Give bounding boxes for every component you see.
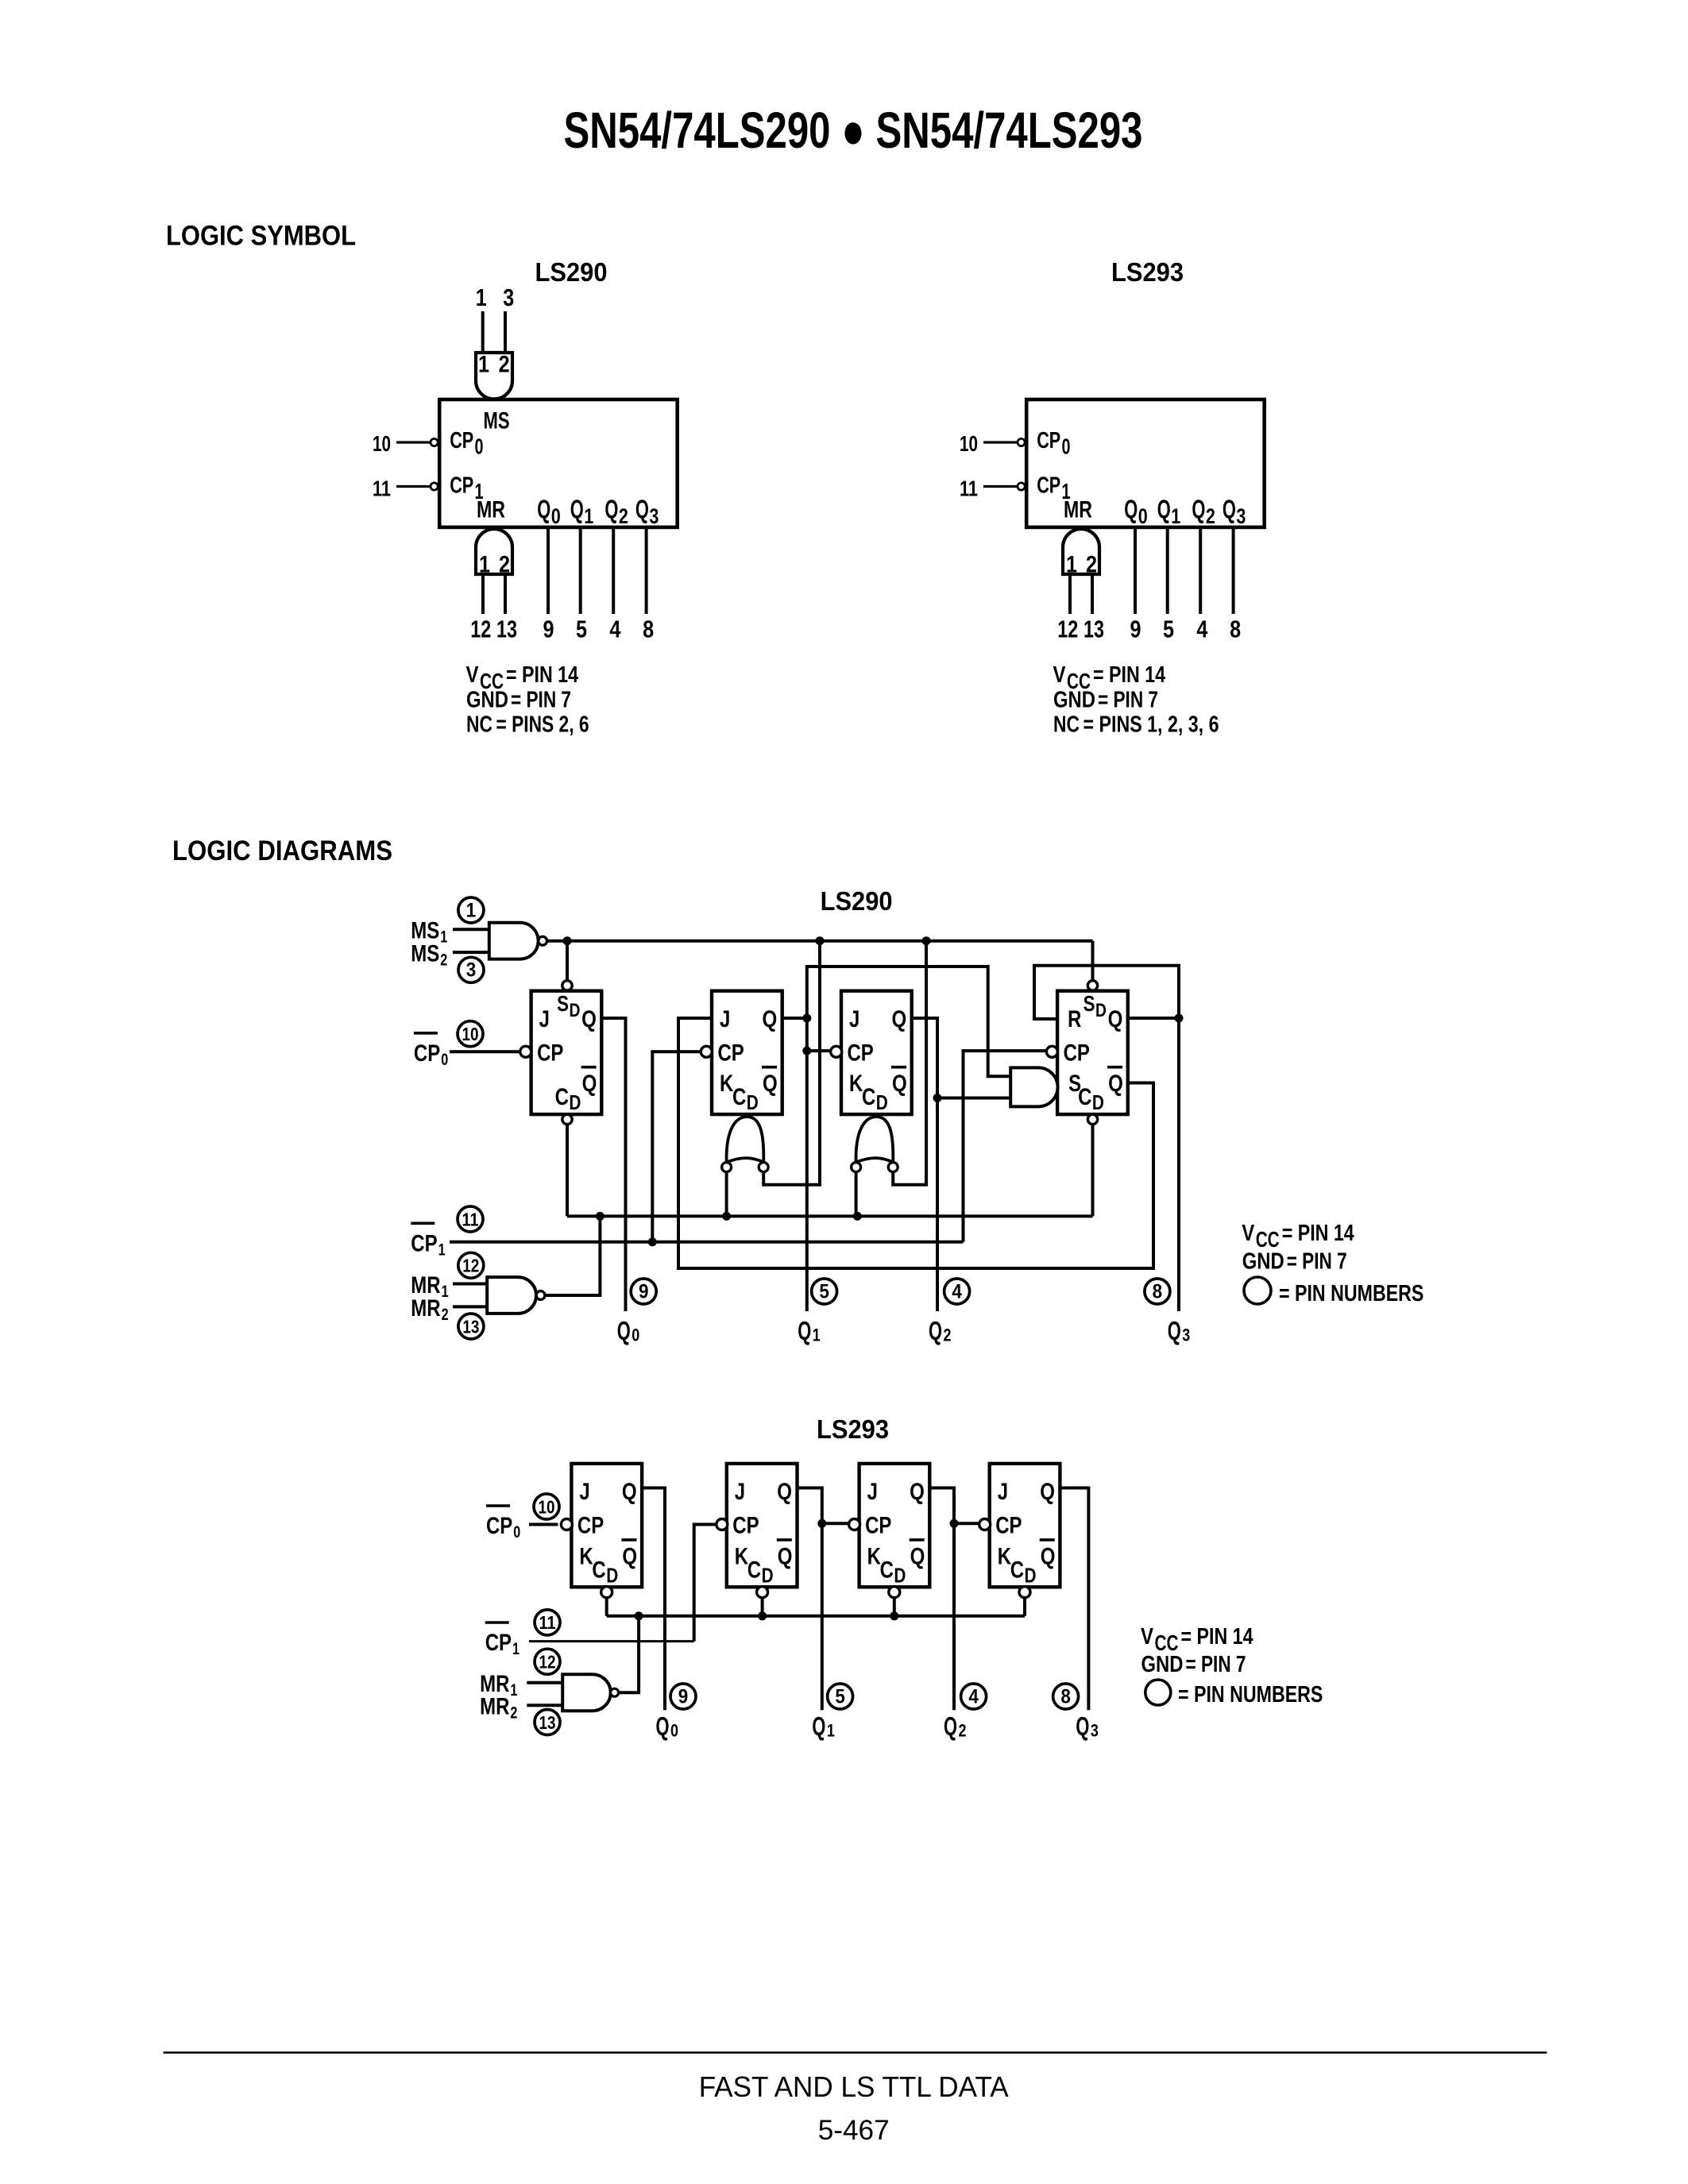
svg-text:D: D bbox=[1025, 1563, 1037, 1587]
svg-text:J: J bbox=[867, 1479, 878, 1505]
svg-text:J: J bbox=[998, 1479, 1008, 1505]
svg-text:Q: Q bbox=[1223, 495, 1236, 524]
svg-text:8: 8 bbox=[1153, 1280, 1163, 1302]
svg-text:Q: Q bbox=[656, 1711, 670, 1741]
svg-text:= PIN NUMBERS: = PIN NUMBERS bbox=[1279, 1281, 1423, 1306]
svg-text:LOGIC SYMBOL: LOGIC SYMBOL bbox=[166, 221, 356, 252]
svg-text:0: 0 bbox=[513, 1523, 520, 1542]
svg-text:= PIN NUMBERS: = PIN NUMBERS bbox=[1178, 1682, 1323, 1707]
svg-text:11: 11 bbox=[539, 1612, 556, 1633]
svg-text:= PIN 14: = PIN 14 bbox=[1181, 1624, 1253, 1650]
svg-text:R: R bbox=[1068, 1006, 1082, 1032]
svg-text:5: 5 bbox=[1163, 615, 1174, 643]
svg-text:Q: Q bbox=[777, 1479, 792, 1505]
svg-text:D: D bbox=[1095, 1000, 1107, 1021]
svg-text:5: 5 bbox=[576, 615, 587, 643]
svg-text:V: V bbox=[1141, 1624, 1154, 1650]
svg-text:CP: CP bbox=[995, 1513, 1022, 1539]
svg-text:5: 5 bbox=[835, 1685, 845, 1707]
svg-text:MR: MR bbox=[480, 1694, 510, 1720]
svg-text:LS293: LS293 bbox=[817, 1414, 889, 1444]
svg-text:11: 11 bbox=[462, 1209, 479, 1229]
svg-text:D: D bbox=[606, 1563, 618, 1587]
svg-text:S: S bbox=[557, 991, 569, 1016]
svg-text:Q: Q bbox=[1108, 1071, 1123, 1097]
svg-text:3: 3 bbox=[503, 284, 514, 311]
svg-text:C: C bbox=[592, 1557, 605, 1583]
svg-text:9: 9 bbox=[639, 1280, 649, 1302]
svg-text:3: 3 bbox=[1091, 1721, 1099, 1741]
svg-text:J: J bbox=[735, 1479, 745, 1505]
svg-text:K: K bbox=[849, 1071, 863, 1097]
svg-text:K: K bbox=[579, 1543, 593, 1569]
svg-text:12: 12 bbox=[1057, 615, 1078, 643]
svg-text:= PIN 14: = PIN 14 bbox=[1282, 1221, 1354, 1246]
svg-text:FAST AND LS TTL DATA: FAST AND LS TTL DATA bbox=[699, 2070, 1009, 2103]
svg-text:Q: Q bbox=[635, 495, 649, 524]
svg-text:= PINS 2, 6: = PINS 2, 6 bbox=[496, 712, 589, 738]
svg-text:12: 12 bbox=[470, 615, 491, 643]
svg-text:4: 4 bbox=[968, 1685, 979, 1707]
svg-text:2: 2 bbox=[1086, 552, 1097, 578]
svg-text:K: K bbox=[867, 1543, 882, 1569]
svg-text:3: 3 bbox=[1182, 1325, 1190, 1345]
svg-text:Q: Q bbox=[944, 1711, 957, 1741]
svg-text:C: C bbox=[1010, 1557, 1024, 1583]
svg-text:= PIN 7: = PIN 7 bbox=[511, 688, 571, 713]
svg-text:1: 1 bbox=[479, 552, 490, 578]
svg-text:Q: Q bbox=[763, 1006, 778, 1032]
svg-text:13: 13 bbox=[539, 1712, 556, 1733]
svg-text:11: 11 bbox=[373, 477, 391, 501]
svg-text:2: 2 bbox=[499, 552, 510, 578]
svg-text:8: 8 bbox=[643, 615, 654, 643]
svg-text:1: 1 bbox=[1066, 552, 1077, 578]
svg-text:1: 1 bbox=[438, 1241, 446, 1259]
svg-text:9: 9 bbox=[543, 615, 554, 643]
svg-text:Q: Q bbox=[910, 1543, 925, 1569]
svg-text:LS290: LS290 bbox=[821, 886, 893, 916]
svg-text:CP: CP bbox=[718, 1040, 744, 1067]
svg-text:K: K bbox=[735, 1543, 749, 1569]
svg-text:10: 10 bbox=[539, 1496, 555, 1517]
svg-text:CP: CP bbox=[414, 1040, 440, 1067]
svg-text:3: 3 bbox=[466, 959, 477, 982]
svg-text:Q: Q bbox=[892, 1006, 907, 1032]
svg-text:2: 2 bbox=[619, 504, 628, 528]
svg-text:10: 10 bbox=[373, 431, 391, 456]
svg-text:Q: Q bbox=[910, 1479, 925, 1505]
svg-text:1: 1 bbox=[827, 1721, 835, 1741]
svg-text:GND: GND bbox=[1242, 1249, 1284, 1275]
svg-text:Q: Q bbox=[1041, 1543, 1056, 1569]
svg-text:1: 1 bbox=[440, 928, 447, 947]
svg-text:8: 8 bbox=[1060, 1685, 1071, 1707]
svg-text:CP: CP bbox=[1064, 1040, 1090, 1067]
svg-text:4: 4 bbox=[952, 1280, 962, 1302]
svg-text:= PIN 7: = PIN 7 bbox=[1287, 1249, 1347, 1275]
svg-text:2: 2 bbox=[1206, 504, 1215, 528]
svg-text:D: D bbox=[747, 1090, 759, 1114]
svg-text:= PINS 1, 2, 3, 6: = PINS 1, 2, 3, 6 bbox=[1083, 712, 1219, 738]
svg-text:13: 13 bbox=[462, 1316, 479, 1337]
svg-text:D: D bbox=[876, 1090, 888, 1114]
svg-text:Q: Q bbox=[929, 1316, 942, 1345]
svg-text:C: C bbox=[732, 1084, 746, 1110]
svg-text:GND: GND bbox=[1141, 1652, 1184, 1677]
svg-text:J: J bbox=[579, 1479, 589, 1505]
svg-text:V: V bbox=[1053, 662, 1067, 688]
svg-text:CC: CC bbox=[1256, 1227, 1280, 1252]
svg-text:Q: Q bbox=[1124, 495, 1138, 524]
svg-text:J: J bbox=[849, 1006, 859, 1032]
svg-text:3: 3 bbox=[1236, 504, 1246, 528]
svg-text:Q: Q bbox=[622, 1543, 637, 1569]
svg-text:K: K bbox=[720, 1071, 734, 1097]
svg-text:C: C bbox=[862, 1084, 875, 1110]
svg-text:1: 1 bbox=[1171, 504, 1180, 528]
svg-text:C: C bbox=[1078, 1084, 1091, 1110]
svg-text:8: 8 bbox=[1230, 615, 1241, 643]
svg-text:2: 2 bbox=[499, 351, 510, 377]
svg-text:Q: Q bbox=[581, 1006, 597, 1032]
svg-text:Q: Q bbox=[1192, 495, 1205, 524]
svg-text:0: 0 bbox=[632, 1325, 639, 1345]
svg-text:= PIN 7: = PIN 7 bbox=[1186, 1652, 1246, 1677]
svg-text:Q: Q bbox=[622, 1479, 637, 1505]
svg-text:Q: Q bbox=[1157, 495, 1171, 524]
svg-text:D: D bbox=[1092, 1090, 1104, 1114]
svg-text:2: 2 bbox=[442, 1306, 449, 1324]
svg-text:NC: NC bbox=[1053, 712, 1080, 738]
svg-text:CP: CP bbox=[537, 1040, 563, 1067]
svg-text:Q: Q bbox=[582, 1071, 597, 1097]
svg-text:Q: Q bbox=[1076, 1711, 1089, 1741]
svg-text:SN54/74LS290 ● SN54/74LS293: SN54/74LS290 ● SN54/74LS293 bbox=[564, 102, 1143, 159]
svg-text:CP: CP bbox=[732, 1513, 759, 1539]
svg-text:MS: MS bbox=[411, 941, 439, 967]
svg-text:4: 4 bbox=[1196, 615, 1208, 643]
svg-text:10: 10 bbox=[960, 431, 978, 456]
svg-text:Q: Q bbox=[1108, 1006, 1123, 1032]
svg-text:9: 9 bbox=[678, 1685, 689, 1707]
svg-text:CP: CP bbox=[486, 1513, 512, 1539]
svg-text:= PIN 14: = PIN 14 bbox=[506, 662, 578, 688]
svg-text:GND: GND bbox=[1053, 688, 1095, 713]
svg-text:Q: Q bbox=[892, 1071, 907, 1097]
svg-text:Q: Q bbox=[570, 495, 584, 524]
svg-text:C: C bbox=[555, 1084, 569, 1110]
svg-text:Q: Q bbox=[537, 495, 550, 524]
svg-text:Q: Q bbox=[617, 1316, 631, 1345]
svg-text:2: 2 bbox=[944, 1325, 952, 1345]
svg-text:2: 2 bbox=[440, 951, 447, 970]
svg-text:CP: CP bbox=[411, 1230, 437, 1256]
svg-text:1: 1 bbox=[813, 1325, 821, 1345]
svg-text:S: S bbox=[1083, 991, 1095, 1016]
svg-text:GND: GND bbox=[466, 688, 508, 713]
svg-text:D: D bbox=[894, 1563, 906, 1587]
svg-text:3: 3 bbox=[649, 504, 659, 528]
svg-text:CP: CP bbox=[450, 428, 473, 453]
svg-text:MR: MR bbox=[411, 1295, 441, 1322]
svg-text:0: 0 bbox=[551, 504, 561, 528]
svg-text:C: C bbox=[747, 1557, 761, 1583]
svg-text:CP: CP bbox=[865, 1513, 891, 1539]
svg-text:K: K bbox=[998, 1543, 1012, 1569]
svg-text:10: 10 bbox=[462, 1024, 479, 1044]
svg-text:D: D bbox=[762, 1563, 774, 1587]
svg-text:V: V bbox=[1242, 1221, 1255, 1246]
svg-text:CP: CP bbox=[1037, 428, 1060, 453]
svg-text:= PIN 14: = PIN 14 bbox=[1093, 662, 1165, 688]
svg-text:2: 2 bbox=[510, 1704, 517, 1723]
svg-text:Q: Q bbox=[605, 495, 618, 524]
svg-text:0: 0 bbox=[441, 1051, 448, 1069]
svg-text:11: 11 bbox=[960, 477, 978, 501]
svg-text:Q: Q bbox=[1168, 1316, 1181, 1345]
svg-text:MR: MR bbox=[1064, 497, 1092, 523]
svg-text:LOGIC DIAGRAMS: LOGIC DIAGRAMS bbox=[172, 835, 392, 866]
svg-text:D: D bbox=[570, 1000, 581, 1021]
svg-text:Q: Q bbox=[763, 1071, 778, 1097]
svg-text:1: 1 bbox=[466, 899, 477, 921]
svg-text:Q: Q bbox=[778, 1543, 793, 1569]
svg-text:0: 0 bbox=[1062, 434, 1071, 459]
svg-text:4: 4 bbox=[609, 615, 621, 643]
svg-text:D: D bbox=[569, 1090, 581, 1114]
svg-text:Q: Q bbox=[1040, 1479, 1055, 1505]
svg-text:= PIN 7: = PIN 7 bbox=[1098, 688, 1158, 713]
svg-text:1: 1 bbox=[584, 504, 593, 528]
svg-text:MS: MS bbox=[484, 408, 510, 434]
svg-text:1: 1 bbox=[442, 1283, 449, 1301]
svg-text:LS290: LS290 bbox=[535, 257, 608, 287]
svg-text:0: 0 bbox=[475, 434, 484, 459]
svg-text:CP: CP bbox=[1037, 473, 1060, 499]
svg-text:1: 1 bbox=[510, 1681, 517, 1700]
svg-text:J: J bbox=[539, 1006, 550, 1032]
svg-text:0: 0 bbox=[670, 1721, 678, 1741]
svg-text:NC: NC bbox=[466, 712, 492, 738]
svg-text:5: 5 bbox=[819, 1280, 829, 1302]
svg-text:5-467: 5-467 bbox=[818, 2115, 890, 2146]
svg-text:13: 13 bbox=[1083, 615, 1104, 643]
svg-text:CP: CP bbox=[848, 1040, 874, 1067]
svg-text:J: J bbox=[720, 1006, 730, 1032]
svg-text:CP: CP bbox=[577, 1513, 604, 1539]
svg-text:Q: Q bbox=[798, 1316, 811, 1345]
svg-text:MR: MR bbox=[477, 497, 505, 523]
svg-text:Q: Q bbox=[812, 1711, 825, 1741]
svg-text:CP: CP bbox=[450, 473, 473, 499]
svg-text:C: C bbox=[880, 1557, 894, 1583]
svg-text:V: V bbox=[466, 662, 480, 688]
svg-text:0: 0 bbox=[1138, 504, 1148, 528]
svg-text:9: 9 bbox=[1130, 615, 1141, 643]
svg-text:LS293: LS293 bbox=[1111, 257, 1184, 287]
svg-text:13: 13 bbox=[496, 615, 517, 643]
svg-text:CP: CP bbox=[485, 1630, 512, 1656]
svg-text:2: 2 bbox=[959, 1721, 967, 1741]
svg-text:1: 1 bbox=[512, 1640, 520, 1658]
svg-text:1: 1 bbox=[476, 284, 487, 311]
svg-text:1: 1 bbox=[478, 351, 489, 377]
svg-text:12: 12 bbox=[539, 1652, 556, 1673]
svg-text:12: 12 bbox=[462, 1256, 479, 1276]
